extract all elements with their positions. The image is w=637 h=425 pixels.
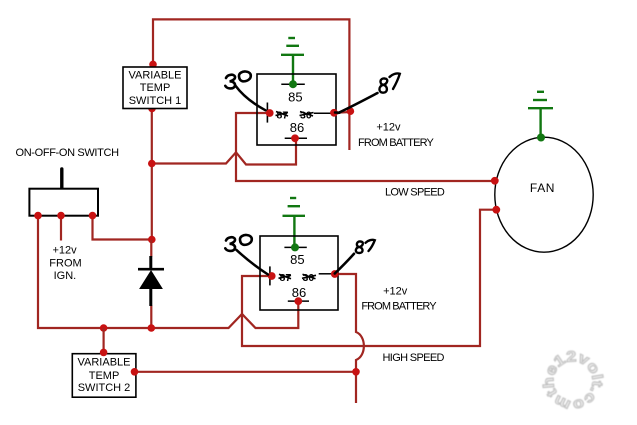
switch SW1 terminal dots	[34, 212, 42, 220]
svg-text:85: 85	[288, 89, 302, 104]
wire: relay 2 terminal 87 to battery drop (hop over high-speed wire)	[335, 274, 364, 403]
handwritten 87 pointing to relay 2 right terminal	[335, 240, 375, 274]
svg-text:LOW SPEED: LOW SPEED	[385, 186, 445, 198]
relay 2 scribbled 30 label (right)	[302, 272, 316, 284]
svg-text:TEMP: TEMP	[140, 82, 171, 94]
node: junction battery drop and temp switch 2 wire	[352, 368, 360, 376]
handwritten 30 pointing to relay 2 left terminal	[225, 235, 268, 275]
node: dot at right of variable temp switch 2	[131, 368, 139, 376]
svg-text:85: 85	[290, 252, 304, 267]
wire: relay 2 terminal 30 to fan high speed	[242, 210, 496, 346]
fan M1 body	[495, 137, 593, 252]
diode D1	[138, 256, 164, 306]
wire: relay 1 terminal 87 to battery vertical	[334, 111, 350, 114]
svg-text:86: 86	[290, 120, 304, 135]
relay 1 terminal 87 (right) tick and dot	[314, 112, 331, 114]
ground symbol above relay 2	[283, 198, 306, 247]
node: fan low speed terminal dot	[491, 177, 499, 185]
node: junction bottom rail and temp switch 2 drop	[100, 324, 108, 332]
svg-text:ON-OFF-ON SWITCH: ON-OFF-ON SWITCH	[16, 147, 120, 159]
node: junction temp switch 1 vertical with 86 wire	[148, 160, 156, 168]
svg-text:FROM BATTERY: FROM BATTERY	[358, 137, 434, 149]
variable temp switch 1 box	[123, 67, 187, 109]
wire: diode bottom stub to bottom rail	[150, 306, 152, 329]
switch SW1 body	[29, 189, 98, 216]
relay 2 terminal 87 (right) tick and dot	[319, 273, 332, 275]
ground symbol above fan	[528, 92, 553, 138]
wire: variable temp switch 2 right terminal to battery drop junction	[135, 371, 357, 373]
relay 2 scribbled 87 label (left)	[279, 272, 292, 284]
node: dot at top of variable temp switch 2	[100, 349, 108, 357]
relay 1 box	[257, 74, 336, 145]
wire: diode top stub from junction	[150, 240, 152, 257]
wire: variable temp switch 1 output vertical	[151, 109, 153, 241]
svg-text:SWITCH 1: SWITCH 1	[129, 95, 182, 107]
watermark: the12volt.com circular	[527, 335, 619, 425]
variable temp switch 2 box	[72, 354, 136, 398]
relay 1 scribbled 87 label (left)	[276, 109, 289, 121]
node: dot at bottom of variable temp switch 1	[148, 105, 156, 113]
relay 2 terminal 85 tick and dot	[284, 243, 306, 251]
svg-text:VARIABLE: VARIABLE	[78, 357, 131, 369]
wire: drop from bottom rail to variable temp switch 2	[102, 328, 104, 353]
wire: relay 1 terminal 30 to fan low speed	[236, 113, 495, 181]
svg-text:IGN.: IGN.	[54, 270, 77, 282]
svg-text:+12v: +12v	[383, 286, 408, 298]
node: fan ground dot	[537, 134, 545, 142]
label: +12v FROM IGN.	[49, 244, 81, 282]
node: junction at temp switch vertical and switch wire	[148, 236, 156, 244]
svg-text:FAN: FAN	[530, 181, 555, 195]
label: +12v FROM BATTERY (relay 2)	[361, 286, 437, 313]
svg-text:+12v: +12v	[53, 244, 78, 256]
relay 2 terminal 30 (left) tick and dot	[269, 266, 271, 285]
handwritten 87 pointing to relay 1 right terminal	[335, 73, 400, 113]
relay 1 terminal 30 (left) tick and dot	[266, 103, 268, 123]
relay 1 terminal 86 tick	[285, 137, 307, 139]
wire: on-off-on switch left terminal down and across to relay 2 terminal 86 (with hop)	[38, 216, 298, 328]
svg-text:VARIABLE: VARIABLE	[129, 70, 182, 82]
svg-text:SWITCH 2: SWITCH 2	[78, 382, 131, 394]
relay 1 terminal 85 tick and dot	[281, 80, 305, 88]
ground symbol above relay 1	[281, 38, 304, 84]
wire: relay 1 terminal 86 to temp switch 1 vertical (with hop over low-speed wire)	[152, 138, 296, 164]
node: junction bottom rail and diode	[148, 324, 156, 332]
relay 2 box	[260, 236, 338, 310]
svg-text:TEMP: TEMP	[89, 370, 120, 382]
label: +12v FROM BATTERY (relay 1)	[358, 121, 434, 148]
wire: on-off-on switch right terminal to temp switch 1 vertical	[93, 216, 152, 240]
svg-text:FROM: FROM	[49, 257, 81, 269]
node: fan high speed terminal dot	[492, 206, 500, 214]
node: junction dot on battery feed at relay 1	[347, 107, 355, 115]
relay 1 scribbled 30 label (right)	[300, 109, 314, 121]
wire: +12v battery feed top loop to variable temp switch 1	[153, 19, 349, 150]
node: dot at top of variable temp switch 1	[149, 61, 157, 69]
relay 2 terminal 86 tick	[288, 300, 309, 302]
switch SW1 toggle lever	[60, 169, 63, 190]
wire: on-off-on switch middle terminal stub to +12v ign	[60, 216, 62, 241]
svg-text:HIGH SPEED: HIGH SPEED	[383, 352, 445, 364]
svg-text:+12v: +12v	[376, 121, 401, 133]
handwritten 30 pointing to relay 1 left terminal	[225, 71, 265, 110]
svg-text:FROM BATTERY: FROM BATTERY	[361, 301, 437, 313]
